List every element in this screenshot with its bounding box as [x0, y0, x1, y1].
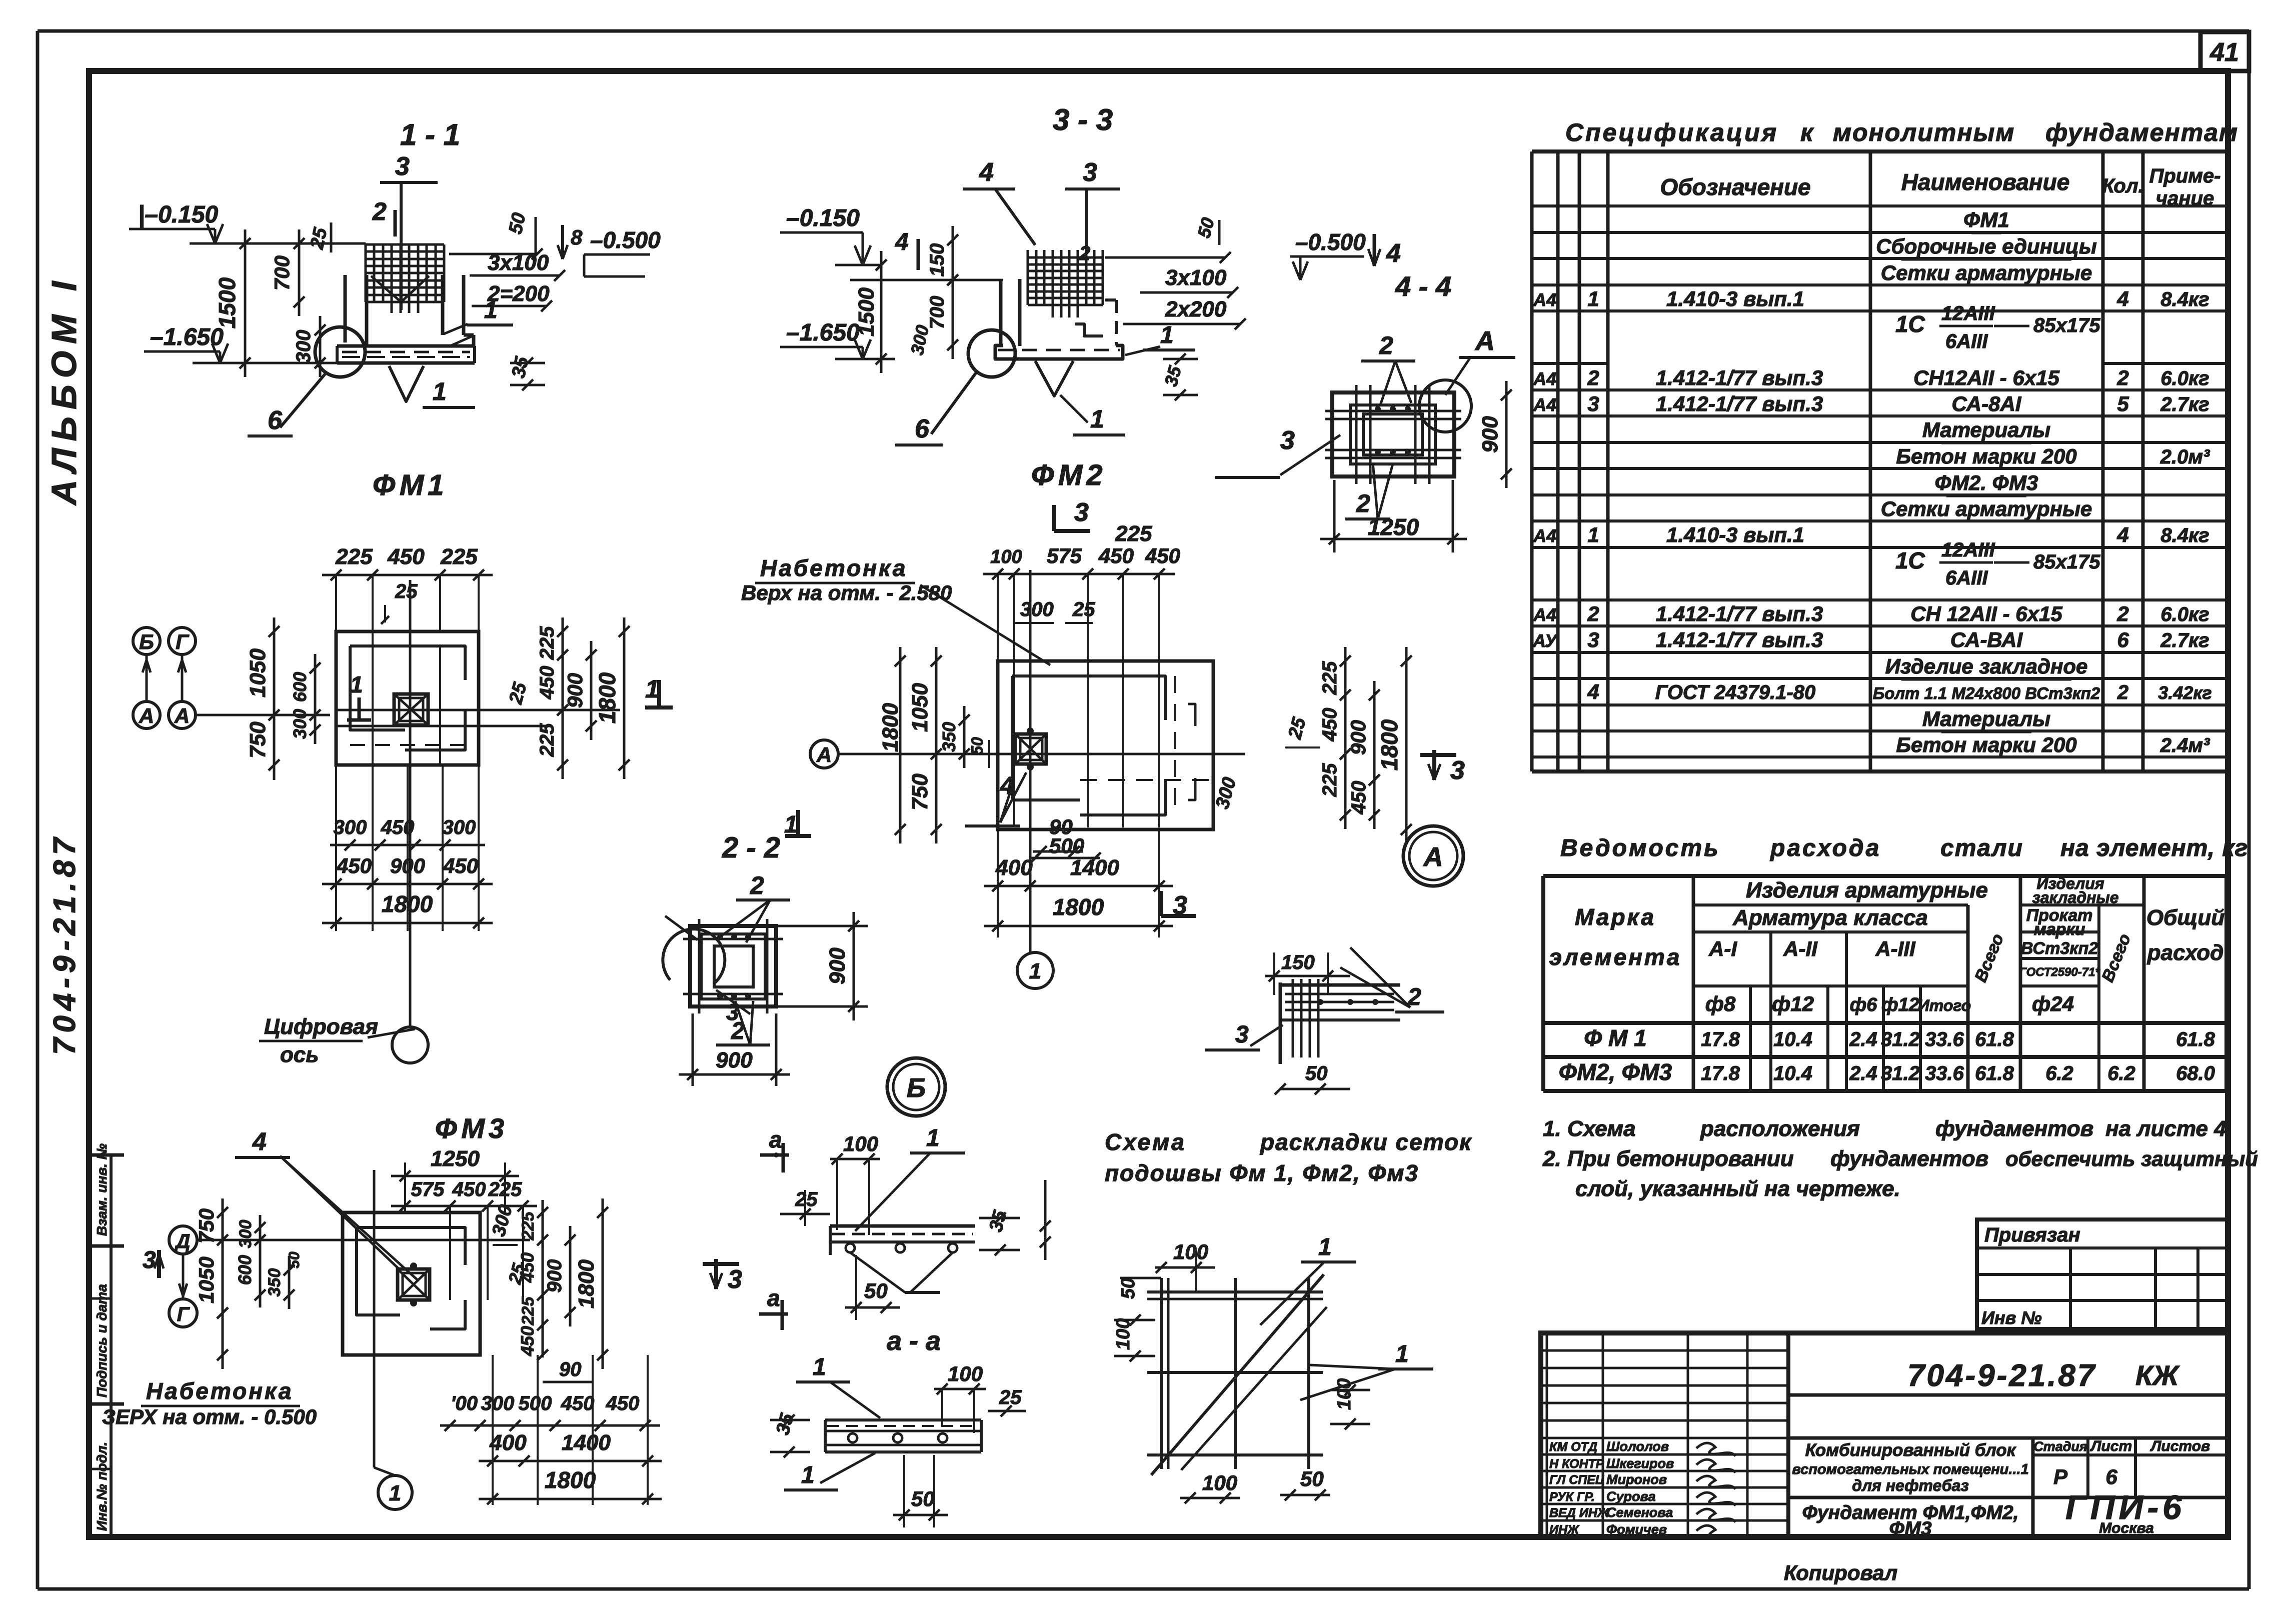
svg-text:8.4кг: 8.4кг: [2160, 524, 2209, 546]
svg-text:450: 450: [443, 854, 478, 877]
svg-text:3 - 3: 3 - 3: [1053, 103, 1113, 136]
svg-text:33.6: 33.6: [1925, 1028, 1964, 1050]
svg-text:ось: ось: [280, 1042, 319, 1067]
svg-text:фундаментов: фундаментов: [1830, 1146, 1988, 1171]
svg-text:6: 6: [915, 414, 930, 443]
svg-text:1800: 1800: [545, 1467, 596, 1493]
svg-text:Бетон марки 200: Бетон марки 200: [1896, 733, 2076, 756]
svg-text:6.2: 6.2: [2107, 1062, 2135, 1084]
svg-text:2.4м³: 2.4м³: [2160, 734, 2210, 756]
svg-text:300: 300: [334, 816, 367, 838]
svg-text:100: 100: [1202, 1471, 1237, 1494]
svg-text:ФМ3: ФМ3: [435, 1112, 508, 1144]
svg-text:35: 35: [1160, 363, 1185, 388]
svg-text:704-9-21.87: 704-9-21.87: [1907, 1358, 2096, 1393]
svg-text:СА-8АI: СА-8АI: [1952, 392, 2022, 415]
svg-text:А4: А4: [1533, 289, 1556, 310]
svg-text:СН12АII - 6х15: СН12АII - 6х15: [1913, 366, 2059, 389]
svg-text:А4: А4: [1533, 394, 1556, 415]
svg-text:А: А: [1423, 842, 1443, 872]
svg-text:3: 3: [1280, 426, 1295, 455]
svg-text:450: 450: [452, 1178, 486, 1200]
svg-text:Всего: Всего: [2098, 931, 2134, 984]
svg-text:50: 50: [505, 211, 530, 236]
svg-text:1800: 1800: [1376, 719, 1402, 770]
svg-text:фундаментам: фундаментам: [2045, 118, 2238, 146]
svg-text:ф6: ф6: [1850, 994, 1878, 1015]
svg-text:1050: 1050: [908, 683, 932, 732]
svg-text:300: 300: [236, 1220, 255, 1248]
svg-text:ф12: ф12: [1881, 994, 1919, 1015]
svg-text:ф12: ф12: [1772, 992, 1814, 1015]
svg-text:100: 100: [948, 1362, 983, 1385]
svg-text:50: 50: [286, 1251, 303, 1268]
svg-text:1050: 1050: [246, 648, 270, 697]
svg-text:750: 750: [195, 1208, 218, 1243]
svg-text:ГОСТ 24379.1-80: ГОСТ 24379.1-80: [1655, 681, 1815, 703]
svg-text:1800: 1800: [382, 891, 433, 917]
svg-text:А: А: [816, 743, 832, 766]
svg-text:Набетонка: Набетонка: [760, 555, 908, 581]
svg-text:300: 300: [481, 1392, 515, 1414]
svg-text:для нефтебаз: для нефтебаз: [1852, 1476, 1968, 1494]
svg-text:400: 400: [995, 855, 1033, 880]
svg-text:Кол.: Кол.: [2102, 175, 2144, 197]
svg-text:Г: Г: [177, 1303, 191, 1325]
svg-text:Н КОНТР: Н КОНТР: [1549, 1457, 1604, 1471]
svg-text:1.412-1/77 вып.3: 1.412-1/77 вып.3: [1656, 628, 1823, 651]
svg-text:300: 300: [290, 709, 310, 739]
svg-text:–1.650: –1.650: [786, 319, 860, 346]
svg-text:900: 900: [1346, 720, 1370, 755]
svg-text:стали: стали: [1940, 835, 2023, 861]
svg-text:а - а: а - а: [887, 1326, 941, 1356]
svg-text:Материалы: Материалы: [1922, 418, 2050, 441]
svg-text:1050: 1050: [195, 1256, 218, 1303]
svg-text:31.2: 31.2: [1881, 1028, 1920, 1050]
svg-text:50: 50: [1305, 1062, 1328, 1084]
svg-text:1: 1: [484, 297, 498, 323]
svg-text:Материалы: Материалы: [1922, 707, 2050, 730]
svg-text:раскладки сеток: раскладки сеток: [1259, 1129, 1472, 1155]
svg-text:900: 900: [544, 1259, 566, 1293]
svg-text:1800: 1800: [594, 672, 620, 723]
svg-text:100: 100: [843, 1132, 878, 1155]
svg-text:900: 900: [1478, 416, 1502, 453]
svg-text:закладные: закладные: [2032, 888, 2118, 906]
svg-text:расположения: расположения: [1700, 1116, 1860, 1141]
svg-text:1: 1: [813, 1354, 826, 1380]
svg-text:1: 1: [350, 671, 363, 697]
svg-text:85х175: 85х175: [2033, 551, 2100, 573]
svg-text:3: 3: [143, 1247, 156, 1273]
svg-text:Шололов: Шололов: [1606, 1439, 1669, 1454]
svg-text:ФМ2: ФМ2: [1031, 459, 1107, 491]
svg-text:2: 2: [1587, 366, 1599, 389]
svg-text:3: 3: [1083, 158, 1097, 187]
svg-text:–0.150: –0.150: [786, 205, 860, 231]
svg-text:А-III: А-III: [1875, 937, 1916, 960]
svg-text:900: 900: [390, 854, 425, 877]
svg-text:400: 400: [489, 1430, 527, 1455]
svg-text:225: 225: [1319, 661, 1341, 695]
svg-text:5: 5: [2117, 392, 2129, 415]
svg-text:450: 450: [1145, 544, 1180, 567]
svg-text:4: 4: [895, 229, 909, 255]
svg-text:33.6: 33.6: [1925, 1062, 1964, 1084]
svg-text:450: 450: [381, 816, 415, 838]
svg-text:А4: А4: [1533, 604, 1556, 625]
svg-text:элемента: элемента: [1549, 944, 1682, 970]
svg-text:Б: Б: [907, 1073, 926, 1103]
svg-text:2.4: 2.4: [1849, 1062, 1877, 1084]
svg-text:3: 3: [395, 152, 410, 181]
svg-text:3: 3: [1450, 756, 1465, 785]
svg-text:Сетки арматурные: Сетки арматурные: [1881, 497, 2092, 520]
svg-text:ф24: ф24: [2032, 992, 2074, 1015]
svg-text:ФМ2. ФМ3: ФМ2. ФМ3: [1935, 471, 2038, 494]
svg-text:А-I: А-I: [1708, 937, 1737, 960]
svg-text:3.42кг: 3.42кг: [2158, 682, 2212, 703]
svg-text:А4: А4: [1533, 525, 1556, 546]
svg-text:61.8: 61.8: [2176, 1028, 2215, 1050]
svg-text:225: 225: [536, 626, 558, 660]
svg-text:1400: 1400: [562, 1430, 611, 1455]
svg-text:Сборочные единицы: Сборочные единицы: [1876, 234, 2097, 258]
svg-text:25: 25: [307, 225, 332, 251]
svg-text:1500: 1500: [214, 277, 240, 328]
svg-text:Взам. инв. №: Взам. инв. №: [94, 1143, 110, 1236]
svg-text:1.412-1/77 вып.3: 1.412-1/77 вып.3: [1656, 366, 1823, 389]
svg-text:25: 25: [1284, 715, 1310, 742]
svg-text:ЗЕРХ на отм. - 0.500: ЗЕРХ на отм. - 0.500: [102, 1405, 317, 1428]
svg-text:300: 300: [1020, 598, 1054, 620]
svg-text:61.8: 61.8: [1975, 1062, 2014, 1084]
svg-text:Болт 1.1 М24х800 ВСт3кп2: Болт 1.1 М24х800 ВСт3кп2: [1873, 684, 2100, 702]
svg-text:4: 4: [1386, 239, 1401, 268]
svg-text:2: 2: [2116, 602, 2128, 625]
svg-text:6АIII: 6АIII: [1945, 567, 1988, 589]
svg-text:3: 3: [1235, 1021, 1249, 1048]
svg-text:8: 8: [571, 225, 583, 249]
svg-text:Р: Р: [2053, 1465, 2068, 1488]
svg-text:Изделие закладное: Изделие закладное: [1885, 654, 2088, 678]
svg-text:Марка: Марка: [1575, 904, 1656, 930]
svg-text:ГЛ СПЕЦ: ГЛ СПЕЦ: [1549, 1473, 1604, 1487]
svg-text:50: 50: [1300, 1467, 1324, 1490]
svg-text:А-II: А-II: [1783, 937, 1818, 960]
svg-text:1: 1: [1029, 959, 1041, 983]
svg-text:50: 50: [864, 1279, 888, 1302]
svg-text:2: 2: [1587, 602, 1599, 625]
svg-text:25: 25: [395, 580, 418, 602]
svg-text:6АIII: 6АIII: [1945, 330, 1988, 352]
svg-text:1: 1: [645, 675, 659, 703]
svg-text:1: 1: [926, 1125, 940, 1151]
svg-text:А4: А4: [1533, 368, 1556, 389]
svg-text:225: 225: [1115, 521, 1152, 546]
svg-text:17.8: 17.8: [1701, 1028, 1740, 1050]
svg-text:300: 300: [488, 1202, 517, 1238]
svg-text:Изделия арматурные: Изделия арматурные: [1746, 878, 1988, 902]
svg-text:Миронов: Миронов: [1606, 1472, 1667, 1487]
svg-text:85х175: 85х175: [2033, 314, 2100, 336]
svg-text:450: 450: [1348, 781, 1370, 815]
svg-text:2.0м³: 2.0м³: [2160, 446, 2210, 468]
svg-text:Обозначение: Обозначение: [1660, 174, 1810, 200]
svg-text:25: 25: [505, 680, 531, 707]
svg-text:25: 25: [1072, 598, 1095, 620]
svg-text:61.8: 61.8: [1975, 1028, 2014, 1050]
svg-text:4: 4: [2116, 523, 2128, 546]
svg-text:3х100: 3х100: [1165, 265, 1227, 290]
svg-text:1: 1: [1395, 1341, 1409, 1367]
svg-text:обеспечить защитный: обеспечить защитный: [2005, 1147, 2258, 1170]
svg-text:Инв №: Инв №: [1981, 1307, 2042, 1328]
svg-text:Инв.№ подл.: Инв.№ подл.: [94, 1442, 110, 1531]
svg-text:Сурова: Сурова: [1606, 1489, 1655, 1504]
svg-text:Москва: Москва: [2099, 1520, 2154, 1536]
svg-text:225: 225: [440, 544, 478, 569]
svg-text:450: 450: [1098, 544, 1134, 567]
svg-text:2: 2: [2116, 366, 2128, 389]
svg-text:1 - 1: 1 - 1: [400, 118, 460, 151]
svg-text:КМ ОТД: КМ ОТД: [1549, 1440, 1597, 1454]
svg-text:Фомичев: Фомичев: [1606, 1522, 1667, 1537]
svg-text:2х200: 2х200: [1165, 297, 1227, 321]
svg-text:Лист: Лист: [2090, 1438, 2132, 1454]
svg-text:3х100: 3х100: [488, 250, 549, 275]
svg-text:ВСт3кп2: ВСт3кп2: [2021, 939, 2098, 958]
svg-text:6: 6: [268, 406, 283, 435]
svg-text:450: 450: [517, 1326, 538, 1356]
svg-text:50: 50: [1193, 215, 1218, 240]
svg-text:10.4: 10.4: [1773, 1028, 1812, 1050]
svg-text:–0.500: –0.500: [590, 227, 661, 253]
svg-text:2: 2: [372, 197, 387, 225]
svg-text:4 - 4: 4 - 4: [1395, 270, 1451, 302]
svg-text:1250: 1250: [1368, 514, 1419, 540]
svg-text:'00: '00: [451, 1392, 478, 1414]
svg-text:3: 3: [1587, 392, 1599, 415]
svg-text:1: 1: [1587, 287, 1599, 310]
svg-text:4: 4: [979, 158, 994, 187]
svg-text:300: 300: [293, 330, 315, 363]
svg-text:8.4кг: 8.4кг: [2160, 288, 2209, 310]
svg-text:704-9-21.87: 704-9-21.87: [48, 833, 82, 1055]
svg-text:450: 450: [336, 854, 372, 877]
svg-text:2: 2: [1379, 331, 1393, 359]
svg-text:3: 3: [728, 1265, 742, 1294]
svg-text:Стадия: Стадия: [2033, 1439, 2087, 1454]
svg-text:ФМ2, ФМ3: ФМ2, ФМ3: [1559, 1059, 1672, 1085]
svg-text:ФМ1: ФМ1: [1963, 208, 2009, 231]
svg-text:225: 225: [519, 1296, 538, 1326]
svg-text:2 - 2: 2 - 2: [722, 831, 780, 864]
svg-text:1.412-1/77 вып.3: 1.412-1/77 вып.3: [1656, 602, 1823, 625]
svg-text:600: 600: [235, 1255, 255, 1285]
svg-text:1250: 1250: [431, 1146, 480, 1171]
svg-text:Схема: Схема: [1105, 1129, 1186, 1155]
svg-text:350: 350: [939, 722, 959, 752]
svg-text:Д: Д: [175, 1230, 191, 1252]
svg-text:41: 41: [2209, 38, 2239, 67]
svg-text:2: 2: [750, 871, 764, 899]
svg-text:А: А: [174, 704, 190, 727]
svg-text:ф8: ф8: [1705, 992, 1736, 1015]
svg-text:1.410-3 вып.1: 1.410-3 вып.1: [1666, 523, 1804, 546]
svg-text:1С: 1С: [1895, 547, 1925, 573]
svg-text:1: 1: [1160, 322, 1174, 348]
svg-text:АУ: АУ: [1532, 630, 1558, 651]
svg-text:1800: 1800: [574, 1259, 599, 1308]
svg-text:–0.500: –0.500: [1295, 229, 1366, 255]
svg-text:Приме-: Приме-: [2149, 165, 2221, 187]
svg-text:Спецификация: Спецификация: [1565, 118, 1778, 146]
svg-text:Бетон марки 200: Бетон марки 200: [1896, 444, 2076, 468]
svg-text:700: 700: [926, 296, 948, 329]
svg-text:к: к: [1800, 118, 1814, 146]
svg-text:1: 1: [1587, 523, 1599, 546]
svg-text:500: 500: [1049, 834, 1084, 857]
svg-text:А: А: [139, 704, 154, 727]
svg-text:6: 6: [2105, 1465, 2117, 1488]
svg-text:450: 450: [561, 1392, 595, 1414]
svg-text:АЛЬБОМ I: АЛЬБОМ I: [45, 274, 84, 506]
svg-text:расхода: расхода: [1769, 835, 1881, 861]
svg-text:Ф М 1: Ф М 1: [1584, 1025, 1646, 1051]
svg-text:4: 4: [2116, 287, 2128, 310]
svg-text:1: 1: [1090, 405, 1104, 433]
svg-text:Семенова: Семенова: [1606, 1505, 1673, 1520]
svg-text:300: 300: [1212, 775, 1240, 811]
svg-text:6: 6: [2117, 628, 2129, 651]
svg-text:Шкегиров: Шкегиров: [1606, 1456, 1674, 1471]
svg-text:10.4: 10.4: [1773, 1062, 1812, 1084]
svg-text:575: 575: [411, 1178, 445, 1200]
svg-text:31.2: 31.2: [1881, 1062, 1920, 1084]
svg-text:25: 25: [795, 1188, 818, 1210]
svg-text:Всего: Всего: [1971, 931, 2007, 984]
svg-text:Цифровая: Цифровая: [264, 1014, 378, 1039]
svg-text:300: 300: [443, 816, 476, 838]
svg-text:225: 225: [1319, 763, 1341, 797]
svg-text:Комбинированный блок: Комбинированный блок: [1805, 1440, 2017, 1460]
svg-text:450: 450: [1319, 708, 1341, 742]
svg-text:Общий: Общий: [2146, 905, 2224, 930]
svg-text:Арматура класса: Арматура класса: [1732, 905, 1928, 930]
svg-text:3: 3: [1587, 628, 1599, 651]
svg-text:вспомогательных помещени...1: вспомогательных помещени...1: [1792, 1461, 2028, 1477]
svg-text:Верх на отм. - 2.580: Верх на отм. - 2.580: [741, 581, 952, 604]
svg-text:слой, указанный на чертеже.: слой, указанный на чертеже.: [1575, 1176, 1900, 1201]
svg-text:450: 450: [606, 1392, 640, 1414]
svg-text:150: 150: [1281, 951, 1315, 973]
svg-text:Листов: Листов: [2150, 1438, 2210, 1454]
svg-text:Привязан: Привязан: [1984, 1224, 2080, 1246]
svg-text:12АIII: 12АIII: [1941, 302, 1995, 324]
svg-text:ФМ3: ФМ3: [1889, 1518, 1931, 1539]
svg-text:2: 2: [1356, 489, 1370, 517]
svg-text:1: 1: [1318, 1234, 1332, 1260]
svg-text:68.0: 68.0: [2176, 1062, 2215, 1084]
svg-text:фундаментов: фундаментов: [1935, 1116, 2093, 1141]
svg-text:ИНЖ: ИНЖ: [1549, 1523, 1580, 1537]
svg-text:1: 1: [801, 1462, 815, 1488]
svg-text:1800: 1800: [1053, 894, 1104, 920]
svg-text:17.8: 17.8: [1701, 1062, 1740, 1084]
svg-text:6.0кг: 6.0кг: [2160, 603, 2209, 625]
svg-text:РУК ГР.: РУК ГР.: [1549, 1490, 1595, 1504]
svg-text:750: 750: [246, 721, 270, 758]
svg-text:350: 350: [265, 1268, 284, 1297]
svg-text:4: 4: [1587, 680, 1599, 703]
svg-text:2: 2: [2117, 681, 2128, 703]
svg-text:а: а: [767, 1285, 780, 1311]
svg-text:Копировал: Копировал: [1784, 1561, 1897, 1584]
svg-text:монолитным: монолитным: [1833, 118, 2015, 146]
svg-text:600: 600: [290, 672, 310, 702]
svg-text:1.410-3 вып.1: 1.410-3 вып.1: [1666, 287, 1804, 310]
svg-text:подошвы Фм 1, Фм2, Фм3: подошвы Фм 1, Фм2, Фм3: [1105, 1160, 1419, 1186]
svg-text:ГОСТ2590-71*: ГОСТ2590-71*: [2019, 965, 2100, 979]
svg-text:50: 50: [911, 1487, 935, 1510]
svg-text:Наименование: Наименование: [1901, 169, 2070, 195]
svg-text:Итого: Итого: [1918, 996, 1971, 1014]
svg-text:2: 2: [1079, 242, 1090, 264]
svg-text:2. При бетонировании: 2. При бетонировании: [1542, 1146, 1794, 1171]
svg-text:ФМ1: ФМ1: [373, 469, 448, 501]
svg-text:300: 300: [907, 323, 933, 356]
svg-text:СА-ВАI: СА-ВАI: [1950, 628, 2023, 651]
svg-text:450: 450: [536, 666, 558, 700]
svg-text:1С: 1С: [1895, 311, 1925, 337]
svg-text:100: 100: [990, 546, 1022, 567]
svg-text:Б: Б: [139, 630, 154, 653]
svg-text:575: 575: [1047, 544, 1082, 567]
svg-text:50: 50: [968, 737, 986, 755]
svg-text:750: 750: [908, 773, 932, 810]
svg-text:6.0кг: 6.0кг: [2160, 367, 2209, 389]
svg-text:1.412-1/77 вып.3: 1.412-1/77 вып.3: [1656, 392, 1823, 415]
svg-text:12АIII: 12АIII: [1941, 539, 1995, 561]
svg-text:100: 100: [1173, 1240, 1208, 1263]
svg-text:расход: расход: [2147, 940, 2224, 965]
svg-text:2.7кг: 2.7кг: [2160, 393, 2209, 415]
svg-text:Подпись и дата: Подпись и дата: [94, 1284, 110, 1397]
svg-text:3: 3: [1074, 498, 1089, 527]
svg-text:150: 150: [926, 243, 948, 277]
svg-text:4: 4: [252, 1127, 267, 1155]
svg-text:марки: марки: [2034, 920, 2085, 939]
svg-text:900: 900: [563, 673, 587, 708]
svg-text:2.7кг: 2.7кг: [2160, 629, 2209, 651]
svg-text:35: 35: [508, 354, 533, 380]
svg-text:6.2: 6.2: [2045, 1062, 2073, 1084]
svg-text:900: 900: [825, 947, 850, 984]
svg-text:Ведомость: Ведомость: [1560, 835, 1720, 861]
svg-text:225: 225: [335, 544, 373, 569]
svg-text:А: А: [1474, 326, 1495, 356]
svg-text:500: 500: [519, 1392, 552, 1414]
svg-text:на элемент, кг: на элемент, кг: [2060, 835, 2248, 861]
svg-text:50: 50: [1118, 1278, 1139, 1299]
svg-text:ВЕД ИНЖ: ВЕД ИНЖ: [1549, 1506, 1610, 1520]
svg-text:1: 1: [389, 1481, 401, 1505]
svg-text:а: а: [769, 1126, 782, 1152]
svg-text:чание: чание: [2156, 187, 2214, 209]
svg-text:1. Схема: 1. Схема: [1543, 1116, 1636, 1141]
